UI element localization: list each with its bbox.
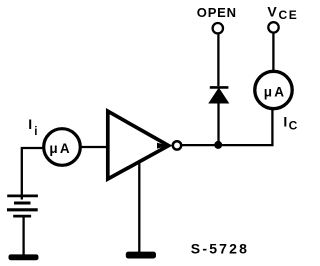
svg-text:μA: μA [264,84,286,99]
svg-text:I: I [28,116,32,132]
diode D1 [209,88,228,103]
ground [126,252,156,259]
wire [138,163,140,253]
svg-text:OPEN: OPEN [197,5,237,20]
bubble [173,141,181,149]
junction node [214,141,222,149]
wire [81,146,108,148]
ammeter M2 [255,71,292,108]
svg-text:V: V [267,3,277,19]
svg-text:I: I [283,113,287,129]
battery B1 [7,196,38,216]
wire [217,102,219,145]
ammeter M1 [44,129,81,166]
svg-text:CE: CE [279,8,299,22]
svg-text:C: C [289,119,298,133]
svg-text:μA: μA [49,141,71,156]
svg-text:i: i [34,126,37,138]
svg-text:S-5728: S-5728 [191,241,249,257]
wire [217,34,219,86]
ground [9,254,39,260]
inverter U1 [108,111,169,179]
wire [22,148,43,200]
wire [22,217,24,255]
terminal OPEN [213,23,223,33]
wire [182,109,272,145]
wire [272,33,274,70]
terminal VCE [268,22,278,32]
